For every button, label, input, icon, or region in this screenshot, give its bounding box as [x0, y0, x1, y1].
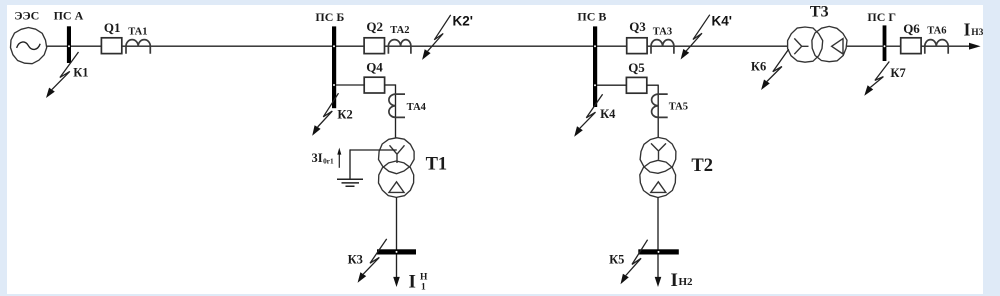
svg-text:ПС В: ПС В — [577, 10, 606, 24]
svg-text:К7: К7 — [890, 66, 905, 80]
svg-text:K4': K4' — [712, 13, 732, 28]
svg-text:Q3: Q3 — [629, 19, 646, 34]
svg-text:Т3: Т3 — [810, 4, 829, 21]
svg-text:Т1: Т1 — [426, 154, 448, 174]
svg-text:ПС Г: ПС Г — [867, 10, 896, 24]
svg-text:Q5: Q5 — [628, 60, 645, 75]
svg-text:3I: 3I — [312, 151, 323, 165]
svg-text:ЭЭС: ЭЭС — [14, 8, 39, 22]
svg-text:Н3: Н3 — [971, 28, 983, 38]
svg-text:ТА5: ТА5 — [669, 101, 688, 112]
svg-text:ТА4: ТА4 — [407, 102, 427, 113]
svg-text:Q4: Q4 — [366, 59, 383, 74]
svg-text:0г1: 0г1 — [323, 156, 334, 165]
svg-text:К5: К5 — [609, 252, 624, 266]
svg-text:Q2: Q2 — [366, 19, 383, 34]
svg-text:ПС А: ПС А — [54, 8, 84, 22]
svg-text:К2: К2 — [337, 107, 352, 121]
svg-text:1: 1 — [421, 283, 426, 293]
svg-text:Н2: Н2 — [679, 276, 694, 288]
svg-text:К3: К3 — [348, 252, 363, 266]
svg-text:K2': K2' — [453, 13, 473, 28]
svg-text:К6: К6 — [751, 59, 766, 73]
svg-text:I: I — [671, 270, 678, 291]
svg-text:Т2: Т2 — [691, 156, 713, 176]
svg-text:К4: К4 — [600, 107, 616, 121]
svg-text:ТА6: ТА6 — [927, 26, 946, 37]
svg-text:К1: К1 — [73, 66, 88, 80]
svg-text:I: I — [409, 272, 416, 293]
svg-text:Н: Н — [420, 273, 428, 283]
svg-text:I: I — [964, 20, 971, 40]
svg-text:ТА3: ТА3 — [653, 27, 672, 38]
svg-text:Q6: Q6 — [903, 21, 920, 36]
svg-text:ПС Б: ПС Б — [315, 10, 344, 24]
svg-text:ТА2: ТА2 — [390, 25, 409, 36]
svg-text:ТА1: ТА1 — [128, 26, 147, 37]
svg-text:Q1: Q1 — [104, 20, 121, 35]
